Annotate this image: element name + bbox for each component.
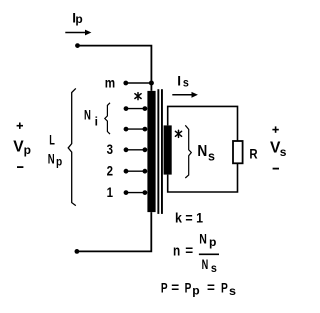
label minus secondary <box>273 168 279 170</box>
asterisk secondary polarity dot <box>175 130 181 137</box>
asterisk primary polarity dot <box>135 93 141 100</box>
svg-text:p: p <box>24 143 31 157</box>
core line right <box>161 89 163 214</box>
wire tap m <box>126 82 152 84</box>
label Vs <box>270 140 287 159</box>
node tap3b right <box>143 127 148 132</box>
label minus primary <box>17 166 23 168</box>
wire top primary <box>78 46 152 91</box>
label Ni <box>84 108 98 129</box>
fraction bar <box>199 253 219 255</box>
svg-text:p: p <box>209 235 216 249</box>
label Ip <box>72 11 83 27</box>
svg-text:s: s <box>208 150 215 164</box>
node tap3 left <box>124 147 129 152</box>
svg-text:s: s <box>229 284 236 298</box>
svg-text:1: 1 <box>107 185 114 200</box>
wire tap 2 <box>126 170 145 172</box>
node tap m left <box>123 81 128 86</box>
label + primary <box>17 123 23 129</box>
wire primary bottom <box>77 212 151 251</box>
node tap3b left <box>124 127 129 132</box>
brace primary winding <box>68 88 76 205</box>
node tap4 left <box>124 106 129 111</box>
node tap4 right <box>143 106 148 111</box>
svg-text:p: p <box>56 154 62 168</box>
svg-text:s: s <box>211 261 217 275</box>
wire tap 4 <box>126 108 145 110</box>
svg-text:P: P <box>221 280 228 295</box>
svg-text:p: p <box>75 12 82 26</box>
svg-text:I: I <box>177 74 181 89</box>
node tap1 right <box>143 190 148 195</box>
wire tap 3 <box>126 149 145 151</box>
svg-text:p: p <box>192 284 199 298</box>
svg-text:N: N <box>84 108 91 123</box>
node tap2 left <box>124 169 129 174</box>
brace Ns winding <box>185 125 191 178</box>
wire secondary top <box>168 106 238 141</box>
svg-text:N: N <box>202 257 209 272</box>
svg-text:N: N <box>48 152 55 167</box>
label Is <box>177 74 189 90</box>
node tap m junction <box>149 81 154 86</box>
svg-text:3: 3 <box>107 142 114 157</box>
label Vp <box>13 139 31 157</box>
svg-text:s: s <box>280 145 287 159</box>
svg-text:L: L <box>49 133 55 148</box>
arrow Ip current direction <box>65 30 91 36</box>
svg-text:m: m <box>105 76 115 91</box>
svg-text:2: 2 <box>107 163 113 178</box>
svg-text:=: = <box>171 280 179 295</box>
label n = <box>173 243 193 260</box>
svg-text:P: P <box>185 280 192 295</box>
brace Ni group <box>105 103 110 134</box>
svg-text:N: N <box>197 143 207 160</box>
svg-text:N: N <box>199 232 207 247</box>
svg-text:R: R <box>249 146 257 161</box>
winding secondary Ns <box>164 125 172 174</box>
svg-text:=: = <box>185 243 193 258</box>
arrow Is current direction <box>172 92 198 98</box>
winding primary Np <box>147 91 155 212</box>
node bottom-left terminal <box>75 249 80 254</box>
svg-text:P: P <box>161 280 168 295</box>
svg-text:n: n <box>173 244 180 260</box>
label Ns denominator <box>202 257 218 275</box>
core line left <box>157 89 159 214</box>
wire tap 1 <box>126 192 145 194</box>
resistor R <box>233 141 243 163</box>
svg-text:s: s <box>183 75 189 89</box>
svg-text:V: V <box>13 139 24 156</box>
wire secondary bottom <box>168 163 238 192</box>
svg-text:i: i <box>95 115 98 129</box>
label P = Pp = Ps <box>161 280 236 298</box>
node tap3 right <box>143 147 148 152</box>
label + secondary <box>272 126 278 132</box>
node top-left terminal <box>75 43 80 48</box>
node tap2 right <box>143 169 148 174</box>
label Ns <box>197 143 215 164</box>
svg-text:k = 1: k = 1 <box>175 209 203 225</box>
node tap1 left <box>124 190 129 195</box>
wire tap 3b <box>126 128 145 130</box>
svg-text:=: = <box>207 280 215 295</box>
label Np winding <box>48 152 62 169</box>
label Np numerator <box>199 232 216 250</box>
